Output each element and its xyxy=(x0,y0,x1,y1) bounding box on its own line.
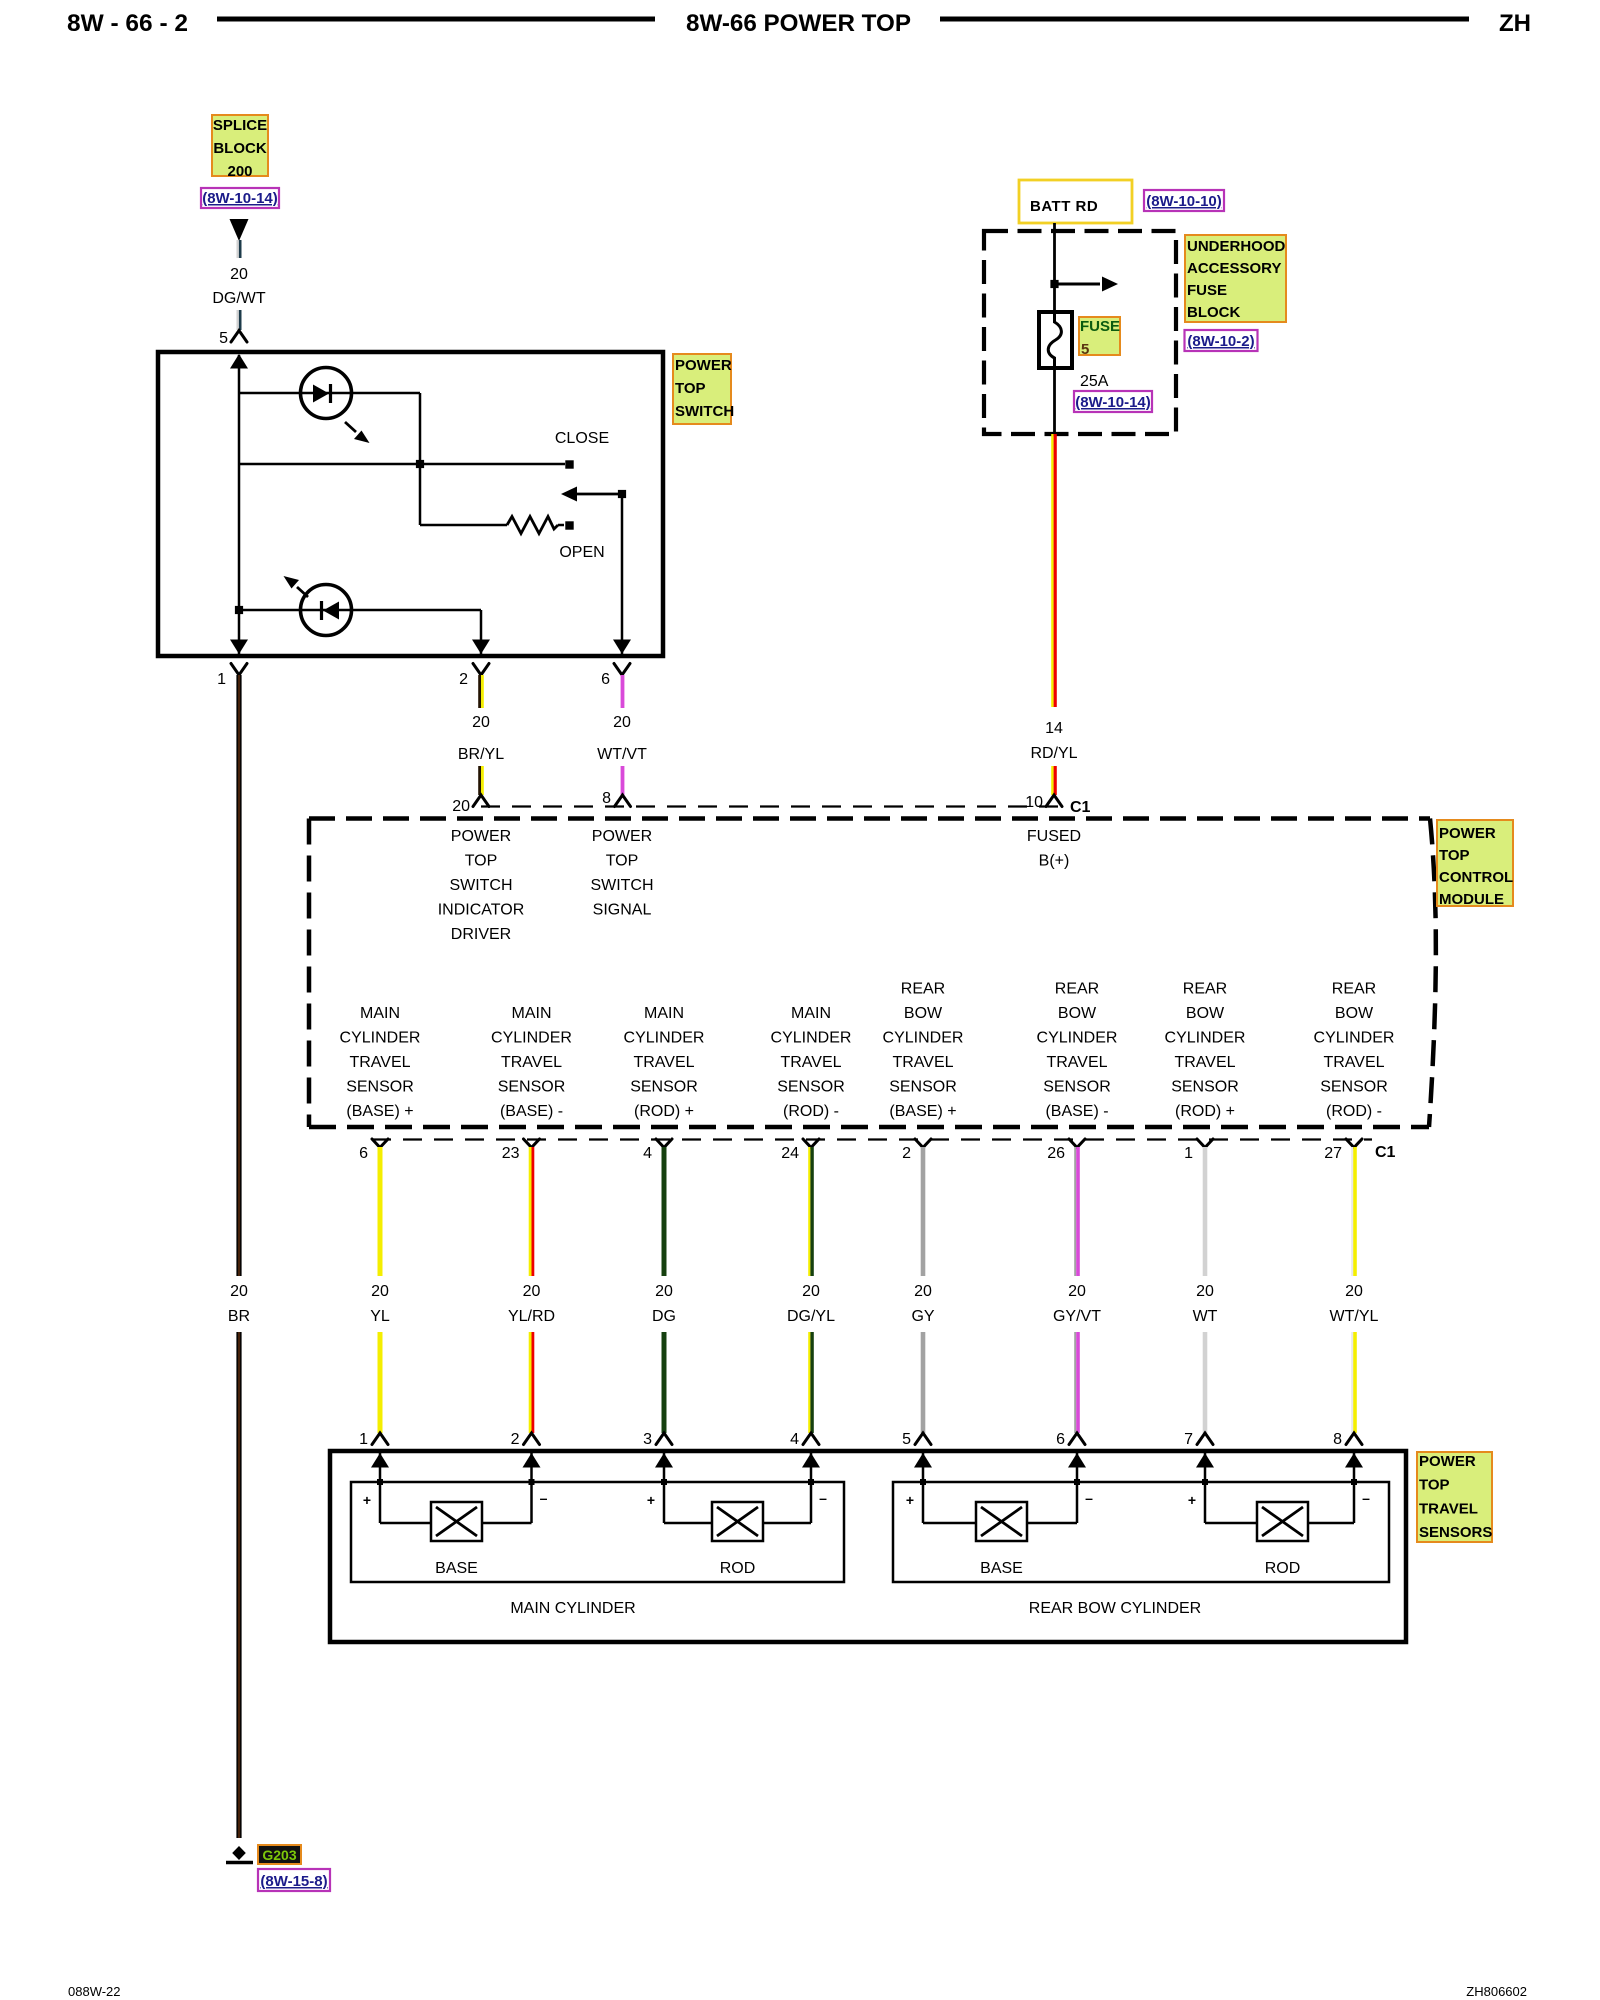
svg-text:BR/YL: BR/YL xyxy=(458,746,504,763)
wire 20 GY lower segment xyxy=(921,1332,926,1433)
svg-text:6: 6 xyxy=(601,671,610,688)
svg-text:WT: WT xyxy=(1193,1308,1218,1325)
svg-text:YL/RD: YL/RD xyxy=(508,1308,555,1325)
travel sensor pin 2 fork xyxy=(524,1433,540,1445)
wire 20 DG upper segment xyxy=(662,1147,667,1276)
wire 14 RD/YL lower segment xyxy=(1051,766,1053,795)
sensor feed wire pin 4 xyxy=(810,1453,813,1523)
svg-text:+: + xyxy=(647,1492,655,1508)
power top switch label xyxy=(673,354,731,424)
power top control module label xyxy=(1437,820,1513,906)
svg-text:(8W-10-2): (8W-10-2) xyxy=(1187,333,1254,350)
wire 20 DG/WT upper segment xyxy=(236,240,238,258)
junction common pole xyxy=(618,490,626,498)
LED indicator D1 wire xyxy=(239,392,420,395)
travel sensor transducer BASE xyxy=(976,1502,1027,1541)
svg-text:SENSOR: SENSOR xyxy=(630,1079,698,1096)
arrow into pin 5 xyxy=(230,354,248,369)
wire batt feed into fuse block xyxy=(1053,223,1056,313)
svg-text:(BASE) -: (BASE) - xyxy=(1045,1103,1108,1120)
svg-text:6: 6 xyxy=(359,1145,368,1162)
connector C1 pin 10 fork xyxy=(1046,795,1062,807)
svg-text:CONTROL: CONTROL xyxy=(1439,869,1513,886)
svg-text:TRAVEL: TRAVEL xyxy=(1323,1054,1384,1071)
svg-text:10: 10 xyxy=(1025,794,1043,811)
svg-text:SIGNAL: SIGNAL xyxy=(593,902,652,919)
reference 8W-10-10 xyxy=(1144,190,1224,211)
svg-text:20: 20 xyxy=(802,1283,820,1300)
junction batt feed xyxy=(1050,280,1058,288)
svg-text:GY: GY xyxy=(911,1308,934,1325)
wire D1 cathode to close contact xyxy=(419,393,422,525)
switch common pole arrow xyxy=(577,493,622,496)
svg-text:POWER: POWER xyxy=(1419,1453,1476,1470)
wire 20 WT/YL upper segment xyxy=(1351,1147,1353,1276)
sensor feed wire pin 3 xyxy=(663,1453,666,1523)
svg-text:TOP: TOP xyxy=(1419,1477,1450,1494)
connector C1 pin 23 fork xyxy=(524,1139,540,1148)
node close contact xyxy=(565,460,573,468)
svg-text:MAIN CYLINDER: MAIN CYLINDER xyxy=(510,1600,635,1617)
svg-text:TRAVEL: TRAVEL xyxy=(892,1054,953,1071)
svg-text:TOP: TOP xyxy=(675,380,706,397)
travel sensor pin 4 fork xyxy=(803,1433,819,1445)
svg-text:20: 20 xyxy=(452,798,470,815)
wire open branch xyxy=(420,524,507,527)
svg-text:ZH: ZH xyxy=(1499,10,1531,37)
svg-text:SENSOR: SENSOR xyxy=(889,1079,957,1096)
svg-text:SENSOR: SENSOR xyxy=(1043,1079,1111,1096)
LED indicator D1 (close) xyxy=(301,368,352,419)
svg-text:B(+): B(+) xyxy=(1039,853,1070,870)
svg-text:SPLICE: SPLICE xyxy=(213,117,267,134)
svg-text:8W-66 POWER TOP: 8W-66 POWER TOP xyxy=(686,10,911,37)
svg-text:DRIVER: DRIVER xyxy=(451,926,511,943)
svg-text:ROD: ROD xyxy=(1265,1560,1301,1577)
svg-text:–: – xyxy=(819,1490,827,1506)
LED indicator D2 wire xyxy=(239,609,481,612)
svg-text:BR: BR xyxy=(228,1308,250,1325)
svg-text:BOW: BOW xyxy=(1186,1005,1225,1022)
switch pin 6 connector fork xyxy=(614,664,630,676)
svg-text:SENSORS: SENSORS xyxy=(1419,1524,1492,1541)
svg-text:SWITCH: SWITCH xyxy=(449,877,512,894)
svg-text:(ROD) +: (ROD) + xyxy=(634,1103,694,1120)
travel sensor pin 6 fork xyxy=(1069,1433,1085,1445)
svg-text:TRAVEL: TRAVEL xyxy=(1174,1054,1235,1071)
splice S200 take-out arrow xyxy=(230,219,249,241)
svg-text:+: + xyxy=(906,1492,914,1508)
wire 20 DG lower segment xyxy=(662,1332,667,1433)
power top travel sensors label xyxy=(1417,1452,1492,1542)
svg-text:SENSOR: SENSOR xyxy=(1320,1079,1388,1096)
svg-text:24: 24 xyxy=(781,1145,799,1162)
wire 20 BR/YL lower segment xyxy=(478,766,481,795)
svg-text:REAR: REAR xyxy=(901,981,945,998)
wire fuse output xyxy=(1053,368,1056,434)
svg-text:RD/YL: RD/YL xyxy=(1030,745,1077,762)
svg-text:2: 2 xyxy=(459,671,468,688)
svg-text:20: 20 xyxy=(613,714,631,731)
wire 20 BR upper segment xyxy=(236,675,241,1276)
wire D2 to pin 2 xyxy=(480,610,483,654)
wire 20 DG/YL upper segment xyxy=(808,1147,810,1276)
connector C1 bottom line xyxy=(372,1138,1372,1140)
svg-text:DG: DG xyxy=(652,1308,676,1325)
svg-text:8: 8 xyxy=(602,790,611,807)
svg-text:BASE: BASE xyxy=(980,1560,1023,1577)
svg-text:27: 27 xyxy=(1324,1145,1342,1162)
wire 20 WT/VT upper segment xyxy=(621,675,625,708)
svg-text:MODULE: MODULE xyxy=(1439,891,1504,908)
arrow to pin 1 xyxy=(230,640,248,655)
svg-text:1: 1 xyxy=(217,671,226,688)
switch pin 2 connector fork xyxy=(473,664,489,676)
svg-text:FUSE: FUSE xyxy=(1080,318,1120,335)
svg-text:YL: YL xyxy=(370,1308,390,1325)
splice block 200 label xyxy=(212,115,268,176)
svg-text:20: 20 xyxy=(523,1283,541,1300)
svg-text:(ROD) +: (ROD) + xyxy=(1175,1103,1235,1120)
node open contact xyxy=(565,521,573,529)
svg-text:20: 20 xyxy=(655,1283,673,1300)
travel sensor pin 7 fork xyxy=(1197,1433,1213,1445)
svg-text:+: + xyxy=(1188,1492,1196,1508)
svg-text:ROD: ROD xyxy=(720,1560,756,1577)
wire pin5 feed vertical inside switch xyxy=(238,355,241,654)
svg-text:G203: G203 xyxy=(262,1847,296,1863)
svg-text:FUSE: FUSE xyxy=(1187,282,1227,299)
svg-text:BLOCK: BLOCK xyxy=(213,140,266,157)
fuse 5 xyxy=(1039,312,1072,368)
svg-text:WT/VT: WT/VT xyxy=(597,746,647,763)
arrow to pin 2 xyxy=(472,640,490,655)
svg-text:(BASE) -: (BASE) - xyxy=(500,1103,563,1120)
bus take-out arrow xyxy=(1055,283,1101,286)
svg-text:(8W-10-10): (8W-10-10) xyxy=(1146,193,1222,210)
header rule left xyxy=(217,17,655,22)
svg-text:POWER: POWER xyxy=(1439,825,1496,842)
LED D1 emission arrow xyxy=(345,422,356,432)
wire 20 WT/VT lower segment xyxy=(621,766,625,795)
svg-text:TRAVEL: TRAVEL xyxy=(1419,1500,1478,1517)
sensor feed wire pin 7 xyxy=(1204,1453,1207,1523)
wire 20 YL lower segment xyxy=(378,1332,383,1433)
svg-text:8: 8 xyxy=(1333,1431,1342,1448)
junction pin 6 at group box xyxy=(1074,1479,1080,1485)
svg-text:DG/YL: DG/YL xyxy=(787,1308,835,1325)
svg-text:20: 20 xyxy=(1345,1283,1363,1300)
svg-text:BOW: BOW xyxy=(1335,1005,1374,1022)
svg-text:TOP: TOP xyxy=(465,853,498,870)
svg-text:(ROD) -: (ROD) - xyxy=(1326,1103,1382,1120)
svg-text:5: 5 xyxy=(219,330,228,347)
svg-text:CYLINDER: CYLINDER xyxy=(1314,1030,1395,1047)
svg-text:(8W-10-14): (8W-10-14) xyxy=(202,190,278,207)
ground G203 label xyxy=(258,1845,301,1864)
svg-text:–: – xyxy=(1085,1490,1093,1506)
svg-text:CYLINDER: CYLINDER xyxy=(340,1030,421,1047)
connector C1 top line xyxy=(481,805,1066,807)
sensor feed wire pin 8 xyxy=(1353,1453,1356,1523)
svg-text:23: 23 xyxy=(502,1145,520,1162)
svg-text:2: 2 xyxy=(511,1431,520,1448)
wire 20 YL/RD upper segment xyxy=(529,1147,532,1276)
svg-text:CYLINDER: CYLINDER xyxy=(491,1030,572,1047)
svg-text:CYLINDER: CYLINDER xyxy=(1037,1030,1118,1047)
svg-text:BATT RD: BATT RD xyxy=(1030,198,1098,215)
junction led D2 / pin 1 xyxy=(235,606,243,614)
svg-text:UNDERHOOD: UNDERHOOD xyxy=(1187,238,1286,255)
wire 20 WT lower segment xyxy=(1203,1332,1208,1433)
svg-text:8W - 66 - 2: 8W - 66 - 2 xyxy=(67,10,188,37)
junction pin 2 at group box xyxy=(529,1479,535,1485)
svg-text:4: 4 xyxy=(643,1145,652,1162)
svg-text:SENSOR: SENSOR xyxy=(1171,1079,1239,1096)
svg-text:MAIN: MAIN xyxy=(644,1005,684,1022)
svg-text:ZH806602: ZH806602 xyxy=(1466,1984,1527,1999)
power top travel sensors box xyxy=(330,1451,1406,1642)
ground G203 symbol xyxy=(232,1846,246,1860)
svg-text:INDICATOR: INDICATOR xyxy=(438,902,525,919)
junction pin 3 at group box xyxy=(661,1479,667,1485)
svg-text:CLOSE: CLOSE xyxy=(555,430,609,447)
svg-text:2: 2 xyxy=(902,1145,911,1162)
wire 20 GY/VT upper segment xyxy=(1074,1147,1076,1276)
svg-text:1: 1 xyxy=(359,1431,368,1448)
sensor feed wire pin 2 xyxy=(530,1453,533,1523)
svg-text:TRAVEL: TRAVEL xyxy=(1046,1054,1107,1071)
svg-text:REAR: REAR xyxy=(1183,981,1227,998)
svg-text:MAIN: MAIN xyxy=(360,1005,400,1022)
travel sensor pin 5 fork xyxy=(915,1433,931,1445)
svg-text:REAR: REAR xyxy=(1055,981,1099,998)
svg-text:TRAVEL: TRAVEL xyxy=(780,1054,841,1071)
travel sensor pin 1 fork xyxy=(372,1433,388,1445)
wire common pole to pin 6 xyxy=(621,494,624,654)
svg-text:6: 6 xyxy=(1056,1431,1065,1448)
power top switch box xyxy=(158,352,663,656)
wire 20 BR/YL upper segment xyxy=(478,675,481,708)
svg-text:(8W-15-8): (8W-15-8) xyxy=(260,1873,327,1890)
connector C1 pin 24 fork xyxy=(803,1139,819,1148)
connector C1 pin 20 fork xyxy=(473,795,489,807)
junction pin 7 at group box xyxy=(1202,1479,1208,1485)
svg-text:(BASE) +: (BASE) + xyxy=(889,1103,956,1120)
wire 20 GY/VT lower segment xyxy=(1074,1332,1076,1433)
svg-text:SENSOR: SENSOR xyxy=(346,1079,414,1096)
svg-text:MAIN: MAIN xyxy=(512,1005,552,1022)
svg-text:20: 20 xyxy=(230,1283,248,1300)
wire close contact line xyxy=(239,463,565,466)
fuse 5 label xyxy=(1079,317,1120,355)
svg-text:C1: C1 xyxy=(1070,799,1091,816)
svg-text:ACCESSORY: ACCESSORY xyxy=(1187,260,1281,277)
connector C1 pin 4 fork xyxy=(656,1139,672,1148)
svg-text:POWER: POWER xyxy=(451,828,511,845)
wire 20 WT upper segment xyxy=(1203,1147,1208,1276)
resistor (open position feedback) xyxy=(507,517,558,534)
svg-text:GY/VT: GY/VT xyxy=(1053,1308,1101,1325)
travel sensor pin 3 fork xyxy=(656,1433,672,1445)
svg-text:MAIN: MAIN xyxy=(791,1005,831,1022)
svg-text:TRAVEL: TRAVEL xyxy=(501,1054,562,1071)
svg-text:TOP: TOP xyxy=(1439,847,1470,864)
wire 20 DG/YL lower segment xyxy=(808,1332,810,1433)
svg-text:SWITCH: SWITCH xyxy=(675,403,734,420)
svg-text:SENSOR: SENSOR xyxy=(498,1079,566,1096)
svg-text:4: 4 xyxy=(790,1431,799,1448)
travel sensor transducer BASE xyxy=(431,1502,482,1541)
svg-text:5: 5 xyxy=(902,1431,911,1448)
reference 8W-15-8 xyxy=(258,1869,330,1891)
svg-text:20: 20 xyxy=(230,266,248,283)
connector C1 pin 26 fork xyxy=(1069,1139,1085,1148)
svg-text:BOW: BOW xyxy=(1058,1005,1097,1022)
travel sensor pin 8 fork xyxy=(1346,1433,1362,1445)
junction pin 5 at group box xyxy=(920,1479,926,1485)
svg-text:WT/YL: WT/YL xyxy=(1330,1308,1379,1325)
svg-text:C1: C1 xyxy=(1375,1144,1396,1161)
arrow to pin 6 xyxy=(613,640,631,655)
underhood accessory fuse block label xyxy=(1185,235,1286,322)
svg-text:CYLINDER: CYLINDER xyxy=(883,1030,964,1047)
switch pin 5 connector fork xyxy=(231,331,247,343)
svg-text:TRAVEL: TRAVEL xyxy=(633,1054,694,1071)
svg-text:TRAVEL: TRAVEL xyxy=(349,1054,410,1071)
svg-text:(BASE) +: (BASE) + xyxy=(346,1103,413,1120)
wire 20 BR lower segment xyxy=(236,1332,241,1838)
reference 8W-10-2 xyxy=(1185,330,1258,351)
svg-text:(ROD) -: (ROD) - xyxy=(783,1103,839,1120)
travel sensor transducer ROD xyxy=(712,1502,763,1541)
BATT RD label box xyxy=(1019,180,1132,223)
travel sensor transducer ROD xyxy=(1257,1502,1308,1541)
sensor feed wire pin 1 xyxy=(379,1453,382,1523)
svg-text:POWER: POWER xyxy=(592,828,652,845)
wire 20 YL upper segment xyxy=(378,1147,383,1276)
svg-text:7: 7 xyxy=(1184,1431,1193,1448)
wire 20 WT/YL lower segment xyxy=(1351,1332,1353,1433)
svg-text:20: 20 xyxy=(371,1283,389,1300)
svg-text:1: 1 xyxy=(1184,1145,1193,1162)
svg-text:(8W-10-14): (8W-10-14) xyxy=(1075,394,1151,411)
rear bow cylinder sensor group box xyxy=(893,1482,1389,1582)
svg-text:REAR: REAR xyxy=(1332,981,1376,998)
svg-text:CYLINDER: CYLINDER xyxy=(1165,1030,1246,1047)
svg-text:FUSED: FUSED xyxy=(1027,828,1081,845)
svg-text:OPEN: OPEN xyxy=(559,544,604,561)
connector C1 pin 1 fork xyxy=(1197,1139,1213,1148)
connector C1 pin 6 fork xyxy=(372,1139,388,1148)
junction pin 4 at group box xyxy=(808,1479,814,1485)
svg-text:14: 14 xyxy=(1045,720,1063,737)
svg-text:–: – xyxy=(540,1490,548,1506)
wire 20 DG/WT lower segment xyxy=(236,310,238,330)
wire 14 RD/YL upper segment xyxy=(1051,434,1053,707)
junction pin 1 at group box xyxy=(377,1479,383,1485)
reference 8W-10-14 (fuse) xyxy=(1074,391,1152,412)
svg-text:+: + xyxy=(363,1492,371,1508)
svg-text:TOP: TOP xyxy=(606,853,639,870)
sensor feed wire pin 5 xyxy=(922,1453,925,1523)
svg-text:BOW: BOW xyxy=(904,1005,943,1022)
sensor feed wire pin 6 xyxy=(1076,1453,1079,1523)
svg-text:5: 5 xyxy=(1081,341,1089,358)
svg-text:–: – xyxy=(1362,1490,1370,1506)
svg-text:20: 20 xyxy=(914,1283,932,1300)
svg-text:BLOCK: BLOCK xyxy=(1187,304,1240,321)
junction close/led branch xyxy=(416,460,424,468)
svg-text:088W-22: 088W-22 xyxy=(68,1984,121,1999)
svg-text:3: 3 xyxy=(643,1431,652,1448)
underhood accessory fuse block (dashed) xyxy=(984,231,1176,434)
svg-text:CYLINDER: CYLINDER xyxy=(624,1030,705,1047)
svg-text:20: 20 xyxy=(472,714,490,731)
svg-text:POWER: POWER xyxy=(675,357,732,374)
connector C1 pin 8 fork xyxy=(615,795,631,807)
LED indicator D2 (open) xyxy=(301,585,352,636)
reference 8W-10-14 (splice) xyxy=(201,188,279,208)
junction pin 8 at group box xyxy=(1351,1479,1357,1485)
connector C1 pin 27 fork xyxy=(1346,1139,1362,1148)
svg-text:REAR BOW CYLINDER: REAR BOW CYLINDER xyxy=(1029,1600,1201,1617)
svg-text:25A: 25A xyxy=(1080,373,1109,390)
wire 20 GY upper segment xyxy=(921,1147,926,1276)
svg-text:26: 26 xyxy=(1047,1145,1065,1162)
header rule right xyxy=(940,17,1469,22)
svg-text:CYLINDER: CYLINDER xyxy=(771,1030,852,1047)
switch pin 1 connector fork xyxy=(231,664,247,676)
svg-text:BASE: BASE xyxy=(435,1560,478,1577)
svg-text:20: 20 xyxy=(1068,1283,1086,1300)
connector C1 pin 2 fork xyxy=(915,1139,931,1148)
svg-text:SWITCH: SWITCH xyxy=(590,877,653,894)
power top control module outline (dashed) xyxy=(309,816,1430,821)
main cylinder sensor group box xyxy=(351,1482,844,1582)
svg-text:DG/WT: DG/WT xyxy=(212,290,266,307)
svg-text:20: 20 xyxy=(1196,1283,1214,1300)
LED D2 emission arrow xyxy=(297,587,308,597)
wire 20 YL/RD lower segment xyxy=(529,1332,532,1433)
svg-text:200: 200 xyxy=(227,163,252,180)
svg-text:SENSOR: SENSOR xyxy=(777,1079,845,1096)
